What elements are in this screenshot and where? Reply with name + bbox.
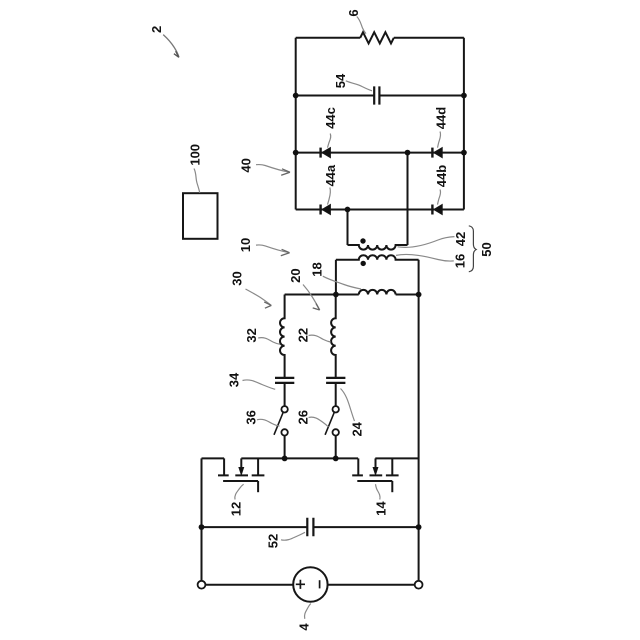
wire leader 40 xyxy=(256,165,289,172)
node winding16 polarity dot xyxy=(361,261,366,266)
svg-text:42: 42 xyxy=(453,232,468,246)
diode 44d xyxy=(431,148,433,158)
wire top loop right rail xyxy=(463,38,465,210)
capacitor C34 plates xyxy=(275,378,294,383)
wire mosfet row segment 1 xyxy=(202,457,225,459)
svg-text:16: 16 xyxy=(453,254,468,268)
transformer winding 42 xyxy=(348,245,408,250)
wire leader 32 xyxy=(258,338,280,345)
wire leader 20 xyxy=(303,285,319,309)
transistor Q14 channel segments xyxy=(352,474,398,476)
svg-text:22: 22 xyxy=(295,328,310,342)
svg-text:44c: 44c xyxy=(323,107,338,129)
wire capacitor 52 row xyxy=(202,526,419,528)
transistor Q12 source stub xyxy=(223,458,225,475)
labels (rotated) xyxy=(149,9,494,630)
wire leader 100 xyxy=(194,169,200,193)
wire top with resistor leads xyxy=(296,37,464,39)
svg-text:26: 26 xyxy=(295,410,310,424)
wire leader 16 xyxy=(396,254,454,261)
svg-text:10: 10 xyxy=(238,238,253,252)
resistor 6 xyxy=(360,32,394,43)
node 44c-row-mid xyxy=(405,150,411,156)
wire diode row 44c 44d xyxy=(296,152,464,154)
svg-text:100: 100 xyxy=(188,144,203,166)
arrowhead 2 xyxy=(174,51,179,57)
transistor Q12 body stub xyxy=(240,458,242,468)
wire leader 54 xyxy=(346,81,372,91)
leader lines (gray) xyxy=(163,17,454,619)
wire cap34 to switch36 xyxy=(284,383,286,406)
box 100 xyxy=(183,193,218,239)
wire left rail lower xyxy=(201,458,203,580)
diode 44c xyxy=(319,148,321,158)
arrowhead 10 xyxy=(281,249,290,255)
wire leader 2 xyxy=(163,35,179,58)
wire mosfet row segment 3 xyxy=(375,457,418,459)
transistor Q14 body arrow xyxy=(373,468,378,475)
switch 26 lever xyxy=(325,412,334,435)
terminal right xyxy=(415,581,423,589)
wire leader 26 xyxy=(309,417,329,427)
svg-text:4: 4 xyxy=(296,623,311,631)
transistor Q12 gate bar xyxy=(223,480,258,482)
transistor Q12 drain stub xyxy=(257,458,259,475)
terminal left xyxy=(198,581,206,589)
wire resonant row right part xyxy=(396,294,419,296)
capacitor C24 plates xyxy=(326,378,345,383)
switch 36 lever xyxy=(274,412,283,435)
arrowheads xyxy=(174,51,320,310)
node cap54-right xyxy=(461,93,467,99)
transistor Q14 source stub xyxy=(357,458,359,475)
source V4 minus (rotated) xyxy=(319,580,321,588)
wire leader 24 xyxy=(341,389,355,422)
node 44c-row-left xyxy=(293,150,299,156)
wire leader 44c xyxy=(328,134,331,148)
svg-text:30: 30 xyxy=(230,271,245,285)
wire leader 10 xyxy=(256,245,288,252)
capacitor C54 plates xyxy=(374,86,379,104)
wire winding42 right lead xyxy=(407,153,409,245)
diode 44a xyxy=(319,205,321,215)
wire top loop left rail xyxy=(295,38,297,210)
arrowhead 20 xyxy=(313,304,320,311)
wire capacitor 54 row xyxy=(296,95,464,97)
node cap54-left xyxy=(293,93,299,99)
wire switch36 to bottom xyxy=(284,435,286,458)
wire leader 30 xyxy=(246,289,271,305)
capacitor C52 plates xyxy=(307,518,313,537)
svg-text:40: 40 xyxy=(238,158,253,172)
node winding42 polarity dot xyxy=(360,238,365,243)
wire leader 42 xyxy=(398,237,455,248)
wire middle branch top + inductor 22 coil xyxy=(331,295,336,378)
svg-text:44b: 44b xyxy=(434,165,449,187)
node cap52-right xyxy=(416,524,422,530)
wire leader 44a xyxy=(328,188,331,205)
wire leader 22 xyxy=(309,335,331,342)
switch 26 top contact xyxy=(333,406,339,412)
switch 26 bottom contact xyxy=(333,429,339,435)
diode 44b xyxy=(431,205,433,215)
svg-text:44a: 44a xyxy=(323,164,338,186)
svg-text:52: 52 xyxy=(266,534,281,548)
wire mosfet row segment 2 xyxy=(241,457,358,459)
transistor Q12 body arrow xyxy=(239,468,244,475)
transistor Q12 channel segments xyxy=(218,474,264,476)
wire leader 52 xyxy=(281,532,305,540)
wire leader 6 xyxy=(357,17,366,34)
wire leader 12 xyxy=(235,484,244,499)
wire leader 14 xyxy=(376,484,381,499)
transformer winding 18 xyxy=(359,290,396,295)
wire diode row 44a 44b xyxy=(296,209,464,211)
svg-text:34: 34 xyxy=(227,372,242,387)
switch 36 top contact xyxy=(281,406,287,412)
svg-text:50: 50 xyxy=(479,242,494,256)
wire leader 44d xyxy=(438,132,441,148)
svg-text:24: 24 xyxy=(350,421,365,436)
node 44a-row xyxy=(345,207,351,213)
svg-text:54: 54 xyxy=(333,73,348,88)
wire leader 18 xyxy=(323,276,361,289)
switch 36 bottom contact xyxy=(281,429,287,435)
source V4 plus xyxy=(296,580,305,589)
transformer winding 16 xyxy=(336,255,419,260)
svg-text:2: 2 xyxy=(149,26,164,33)
svg-text:36: 36 xyxy=(244,410,259,424)
wire right rail to bottom xyxy=(418,260,420,581)
wire switch26 to bottom xyxy=(335,435,337,458)
svg-text:6: 6 xyxy=(346,9,361,16)
wire leader 44b xyxy=(438,190,441,205)
wire leader 4 xyxy=(304,604,310,619)
node 44c-row-right xyxy=(461,150,467,156)
wire winding16 left vertical xyxy=(335,260,337,295)
arrowhead 40 xyxy=(281,169,290,175)
svg-text:18: 18 xyxy=(310,262,325,276)
svg-text:20: 20 xyxy=(288,268,303,282)
transistor Q12 gate lead xyxy=(257,481,259,492)
node mosfet-row-left xyxy=(282,456,288,462)
wire bottom right xyxy=(328,584,415,586)
svg-text:14: 14 xyxy=(374,501,389,516)
svg-text:44d: 44d xyxy=(433,107,448,129)
wire winding42 left lead xyxy=(347,210,349,246)
transistor Q14 body stub xyxy=(375,458,377,468)
node mosfet-row-mid xyxy=(333,456,339,462)
node cap52-left xyxy=(199,524,205,530)
arrowhead 30 xyxy=(264,302,271,308)
wire resonant row left part xyxy=(285,294,359,296)
transistor Q14 gate bar xyxy=(357,480,392,482)
source V4 circle xyxy=(293,567,327,601)
wire bottom left xyxy=(205,584,293,586)
node resonant-row-left xyxy=(333,292,339,298)
wire leader 36 xyxy=(257,419,280,426)
wire leader 34 xyxy=(243,380,276,389)
transistor Q14 gate lead xyxy=(391,481,393,492)
svg-text:32: 32 xyxy=(244,328,259,342)
brace 50 xyxy=(469,226,476,272)
transistor Q14 drain stub xyxy=(391,458,393,475)
svg-text:12: 12 xyxy=(229,502,244,516)
node resonant-row-right xyxy=(416,292,422,298)
wire cap24 to switch26 xyxy=(335,383,337,406)
wire left branch top + inductor 32 coil xyxy=(280,295,285,378)
